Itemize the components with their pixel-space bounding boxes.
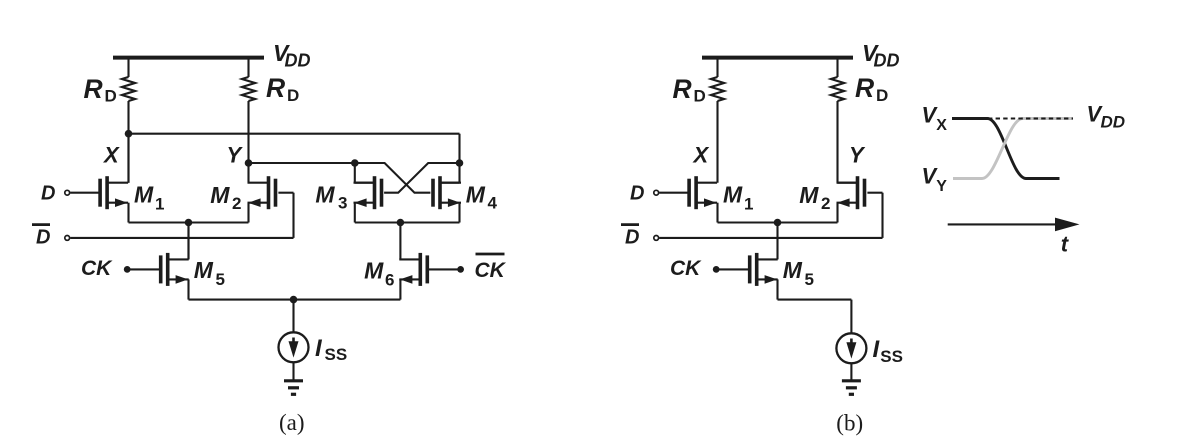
wire: cc tail down to M6 drain bbox=[399, 223, 401, 260]
curve VY (gray) bbox=[953, 119, 1073, 179]
time axis arrow bbox=[948, 218, 1080, 232]
wire: M3 drain bbox=[355, 163, 374, 183]
transistor M1 (a) bbox=[98, 176, 128, 209]
label Y (b) bbox=[849, 143, 866, 168]
curve VX (black) bbox=[952, 119, 1060, 179]
transistor M4 bbox=[431, 176, 461, 209]
svg-text:D: D bbox=[694, 87, 706, 106]
transistor M2 (b) bbox=[837, 176, 867, 209]
svg-text:M: M bbox=[315, 182, 335, 208]
wire: right drain branch (a) bbox=[247, 60, 249, 164]
wire: M1 source to tail (b) bbox=[718, 203, 838, 223]
resistor RD (a, right) bbox=[242, 77, 255, 101]
wire: M5 source to ISS (b) bbox=[778, 279, 852, 333]
wire: ISS to ground (a) bbox=[292, 362, 294, 381]
current source ISS (b) bbox=[836, 333, 866, 363]
ground (b) bbox=[842, 381, 861, 395]
svg-text:M: M bbox=[134, 182, 154, 208]
svg-text:1: 1 bbox=[155, 195, 164, 214]
caption (b) bbox=[836, 411, 863, 436]
label D (a) bbox=[41, 183, 55, 205]
wire: M6 source to bottom rail bbox=[294, 279, 401, 299]
svg-text:R: R bbox=[84, 74, 103, 104]
svg-text:R: R bbox=[266, 73, 285, 103]
wire: M2 source to tail bbox=[247, 203, 249, 223]
node Y (a) bbox=[245, 159, 253, 167]
label Dbar (a) bbox=[32, 225, 50, 249]
wire: M1 source to tail bbox=[129, 203, 249, 223]
wire: ISS to ground (b) bbox=[850, 363, 852, 381]
transistor M6 bbox=[399, 253, 429, 286]
wire: M2 drain up to Y bbox=[247, 163, 249, 183]
caption (a) bbox=[279, 410, 305, 435]
wire: VDD supply rail (b) bbox=[702, 56, 853, 60]
label M2 (a) bbox=[210, 182, 241, 213]
wire: VDD supply rail (a) bbox=[113, 56, 264, 60]
svg-text:Y: Y bbox=[849, 143, 866, 168]
label VDD (a) bbox=[273, 40, 311, 71]
label M1 (a) bbox=[134, 182, 164, 214]
label M3 bbox=[315, 182, 347, 213]
label VDD (waveform) bbox=[1087, 102, 1126, 132]
svg-text:D: D bbox=[625, 227, 639, 249]
svg-text:M: M bbox=[783, 257, 803, 283]
wire: left drain branch (a) bbox=[127, 60, 129, 183]
wire: M5 source to bottom rail bbox=[189, 279, 294, 299]
svg-text:M: M bbox=[364, 258, 384, 284]
svg-text:M: M bbox=[799, 182, 819, 208]
svg-text:6: 6 bbox=[385, 271, 394, 290]
label RD (b, right) bbox=[855, 73, 888, 105]
svg-text:R: R bbox=[673, 74, 692, 104]
svg-text:DD: DD bbox=[874, 51, 900, 71]
wire: M3 gate cross-couple bbox=[384, 163, 459, 193]
wire: M2 source to tail (b) bbox=[836, 203, 838, 223]
input D (a) bbox=[65, 190, 99, 195]
resistor RD (b, right) bbox=[831, 77, 844, 101]
svg-text:M: M bbox=[466, 181, 486, 207]
wire: left drain branch (b) bbox=[716, 60, 718, 183]
node X (a) bbox=[125, 130, 133, 138]
label VX bbox=[922, 103, 948, 134]
label CKbar bbox=[475, 254, 507, 282]
svg-text:2: 2 bbox=[821, 194, 830, 213]
label M2 (b) bbox=[799, 182, 830, 213]
svg-text:t: t bbox=[1061, 232, 1070, 257]
label M4 bbox=[466, 181, 498, 212]
node ISS tap (a) bbox=[290, 296, 298, 304]
resistor RD (b, left) bbox=[711, 77, 724, 101]
label M5 (a) bbox=[194, 257, 225, 289]
wire: M5 drain up bbox=[187, 223, 189, 260]
label M5 (b) bbox=[783, 257, 814, 289]
svg-text:M: M bbox=[194, 257, 214, 283]
svg-text:D: D bbox=[36, 227, 50, 249]
svg-text:CK: CK bbox=[670, 257, 702, 280]
resistor RD (a, left) bbox=[122, 77, 135, 101]
transistor M5 (b) bbox=[748, 253, 778, 286]
svg-text:D: D bbox=[876, 86, 888, 105]
label RD (a, right) bbox=[266, 73, 299, 105]
node M3 drain / Y net bbox=[351, 159, 359, 167]
svg-text:I: I bbox=[315, 335, 323, 362]
input CKbar bbox=[429, 266, 464, 273]
label t bbox=[1061, 232, 1070, 257]
label X (b) bbox=[692, 143, 710, 168]
svg-text:DD: DD bbox=[285, 51, 311, 71]
svg-text:X: X bbox=[936, 117, 947, 134]
svg-text:D: D bbox=[630, 183, 644, 205]
transistor M3 bbox=[354, 176, 384, 209]
label VDD (b) bbox=[862, 40, 900, 71]
label RD (b, left) bbox=[673, 74, 706, 106]
wire: node X to M4 drain bbox=[129, 134, 460, 163]
transistor M5 (a) bbox=[159, 253, 189, 286]
node tail M3/M4 bbox=[397, 219, 405, 227]
wire: node Y to M3 drain bbox=[249, 162, 355, 164]
label ISS (a) bbox=[315, 335, 347, 364]
svg-text:D: D bbox=[287, 86, 299, 105]
label M6 bbox=[364, 258, 394, 290]
wire: M4 gate cross-couple bbox=[355, 163, 431, 193]
svg-text:5: 5 bbox=[216, 270, 225, 289]
label X (a) bbox=[102, 143, 120, 168]
svg-text:I: I bbox=[873, 336, 881, 363]
dashed VDD level line bbox=[988, 118, 1073, 120]
wire: M1 drain up to X bbox=[127, 134, 129, 183]
wire: M4 source to cc tail bbox=[458, 203, 460, 223]
label CK (b) bbox=[670, 257, 702, 280]
current source ISS (a) bbox=[279, 332, 309, 362]
svg-text:Y: Y bbox=[227, 143, 244, 168]
svg-text:5: 5 bbox=[805, 270, 814, 289]
ground (a) bbox=[284, 381, 303, 395]
svg-text:X: X bbox=[102, 143, 120, 168]
svg-text:Y: Y bbox=[936, 178, 947, 195]
wire: tail down to M5 drain bbox=[187, 223, 189, 260]
svg-text:3: 3 bbox=[338, 194, 347, 213]
node tail M1/M2 (b) bbox=[774, 219, 782, 227]
svg-text:D: D bbox=[41, 183, 55, 205]
svg-text:R: R bbox=[855, 73, 874, 103]
wire: right drain branch (b) bbox=[836, 60, 838, 183]
svg-text:1: 1 bbox=[744, 195, 753, 214]
input Dbar (b) bbox=[654, 236, 883, 241]
input CK (a) bbox=[124, 266, 159, 273]
wire: M4 drain bbox=[441, 163, 459, 183]
node M4 drain / X net bbox=[456, 159, 464, 167]
svg-text:M: M bbox=[210, 182, 230, 208]
label VY bbox=[922, 163, 948, 195]
transistor M1 (b) bbox=[687, 176, 717, 209]
label ISS (b) bbox=[873, 336, 903, 366]
svg-text:D: D bbox=[105, 87, 117, 106]
svg-text:CK: CK bbox=[475, 259, 507, 282]
wire: rail down to ISS (a) bbox=[292, 300, 294, 333]
wire: M2 gate to Dbar (b) bbox=[867, 193, 882, 238]
wire: tail down to M5 drain (b) bbox=[776, 223, 778, 260]
svg-text:X: X bbox=[692, 143, 710, 168]
svg-text:SS: SS bbox=[880, 347, 903, 366]
svg-text:(b): (b) bbox=[836, 411, 863, 436]
wire: M3 source to cc tail bbox=[355, 203, 460, 223]
wire: M2 drain jog (b) bbox=[838, 182, 857, 184]
wire: M2 gate to Dbar bbox=[278, 193, 293, 238]
label Y (a) bbox=[227, 143, 244, 168]
svg-text:(a): (a) bbox=[279, 410, 305, 435]
label M1 (b) bbox=[723, 182, 753, 214]
svg-text:CK: CK bbox=[81, 257, 113, 280]
label CK (a) bbox=[81, 257, 113, 280]
svg-text:4: 4 bbox=[488, 194, 498, 213]
svg-text:DD: DD bbox=[1101, 113, 1126, 132]
input CK (b) bbox=[713, 266, 748, 273]
input D (b) bbox=[654, 190, 688, 195]
label D (b) bbox=[630, 183, 644, 205]
svg-text:M: M bbox=[723, 182, 743, 208]
input Dbar (a) bbox=[65, 236, 294, 241]
node tail M1/M2 (a) bbox=[185, 219, 193, 227]
label Dbar (b) bbox=[621, 225, 639, 249]
label RD (a, left) bbox=[84, 74, 117, 106]
svg-text:2: 2 bbox=[232, 194, 241, 213]
transistor M2 (a) bbox=[248, 176, 278, 209]
svg-text:SS: SS bbox=[325, 345, 348, 364]
